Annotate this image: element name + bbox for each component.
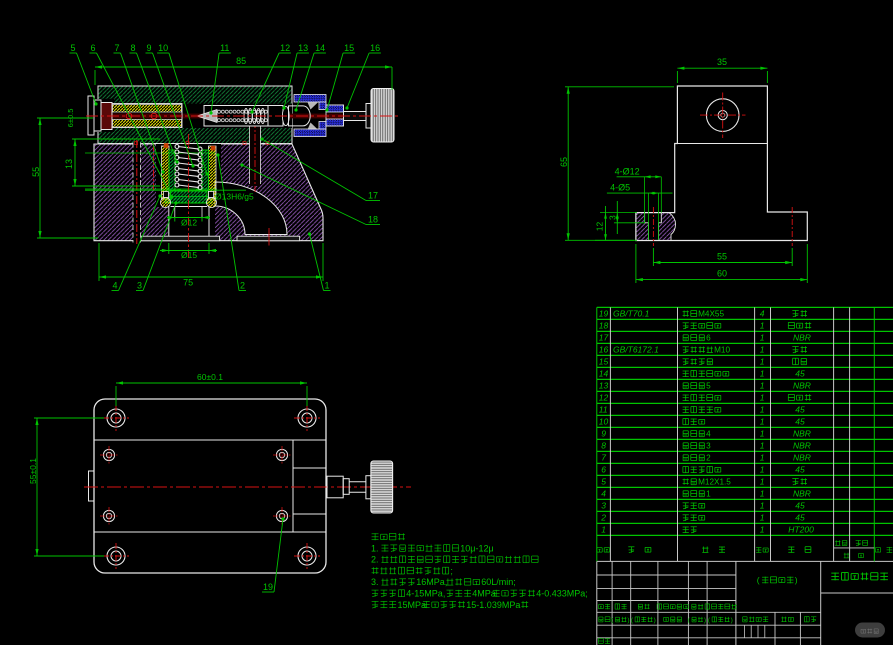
boss circle bbox=[706, 99, 739, 132]
stem bbox=[344, 112, 367, 121]
svg-text:1: 1 bbox=[760, 321, 765, 331]
svg-text:NBR: NBR bbox=[793, 333, 811, 343]
seal balls bbox=[126, 113, 132, 119]
svg-text:45: 45 bbox=[795, 369, 805, 379]
svg-text:13: 13 bbox=[64, 159, 74, 169]
svg-text:1: 1 bbox=[760, 393, 765, 403]
BOM header row bbox=[597, 548, 602, 552]
adjuster bracket blue hatch bbox=[294, 95, 344, 137]
svg-text:;: ; bbox=[450, 566, 453, 576]
spring seat section bbox=[268, 106, 283, 127]
svg-text:6±0.5: 6±0.5 bbox=[66, 109, 75, 128]
svg-text:1.: 1. bbox=[371, 543, 379, 553]
bracket part view bbox=[559, 57, 807, 283]
svg-text:2: 2 bbox=[240, 281, 245, 291]
revision row labels bbox=[598, 605, 603, 609]
svg-text:19: 19 bbox=[599, 309, 609, 319]
dim 65 bbox=[567, 87, 569, 241]
svg-text:Ø15: Ø15 bbox=[181, 250, 197, 260]
svg-text:M10: M10 bbox=[714, 346, 730, 355]
signature row bbox=[599, 617, 603, 622]
svg-text:11: 11 bbox=[599, 405, 608, 415]
svg-text:1: 1 bbox=[760, 369, 765, 379]
main spool green walls bbox=[169, 150, 175, 191]
svg-text:12: 12 bbox=[595, 221, 605, 231]
svg-text:45: 45 bbox=[795, 465, 805, 475]
svg-text:16MPa,: 16MPa, bbox=[416, 577, 447, 587]
svg-text:45: 45 bbox=[795, 513, 805, 523]
svg-text:4: 4 bbox=[113, 281, 118, 291]
svg-text:4-0.433MPa;: 4-0.433MPa; bbox=[536, 589, 588, 599]
svg-text:9: 9 bbox=[147, 43, 152, 53]
svg-text:4MPa: 4MPa bbox=[472, 589, 496, 599]
svg-text:1: 1 bbox=[760, 441, 765, 451]
bottom bore pocket bbox=[168, 206, 215, 241]
svg-text:M12X1.5: M12X1.5 bbox=[698, 478, 731, 487]
svg-text:10μ-12μ: 10μ-12μ bbox=[460, 543, 493, 553]
seal groove squares bbox=[164, 192, 169, 198]
svg-text:3: 3 bbox=[607, 215, 617, 220]
main spool bottom green block bbox=[165, 197, 212, 204]
small spring coils rows bbox=[218, 110, 280, 122]
svg-text:15-1.039MPa: 15-1.039MPa bbox=[466, 600, 520, 610]
BOM parts table bbox=[597, 307, 893, 561]
svg-text:1: 1 bbox=[760, 405, 765, 415]
svg-text:1: 1 bbox=[760, 513, 765, 523]
svg-text:1: 1 bbox=[760, 357, 765, 367]
svg-text:(: ( bbox=[757, 575, 760, 585]
svg-text:75: 75 bbox=[183, 278, 193, 288]
svg-text:65: 65 bbox=[559, 157, 569, 167]
svg-text:5: 5 bbox=[601, 477, 606, 487]
svg-text:5: 5 bbox=[706, 382, 711, 391]
svg-text:9: 9 bbox=[601, 429, 606, 439]
svg-text:GB/T70.1: GB/T70.1 bbox=[613, 309, 650, 319]
dim 6±0.5 rotated bbox=[66, 109, 75, 128]
svg-text:3: 3 bbox=[601, 501, 606, 511]
body cross reference lines bbox=[85, 152, 215, 154]
adjusting nut blue bbox=[326, 105, 344, 112]
svg-text:): ) bbox=[654, 617, 656, 624]
corner bolt holes bbox=[107, 409, 125, 427]
plan view of valve body bbox=[28, 372, 411, 592]
svg-text:NBR: NBR bbox=[793, 381, 811, 391]
dim 55 left bbox=[39, 118, 41, 238]
svg-text:55: 55 bbox=[31, 167, 41, 177]
arc flow pocket bbox=[215, 182, 287, 235]
svg-text:19: 19 bbox=[263, 582, 273, 592]
svg-text:1: 1 bbox=[760, 345, 765, 355]
svg-text:55: 55 bbox=[717, 252, 727, 262]
pilot poppet cone bbox=[197, 110, 217, 123]
dim 60±0.1 bbox=[116, 382, 307, 384]
spring cavity pocket bbox=[156, 144, 221, 207]
O-ring seals yellow circles bbox=[161, 198, 171, 208]
svg-text:6: 6 bbox=[601, 465, 606, 475]
svg-text:1: 1 bbox=[760, 465, 765, 475]
svg-text:GB/T6172.1: GB/T6172.1 bbox=[613, 345, 659, 355]
svg-text:1: 1 bbox=[760, 525, 765, 535]
svg-text:35: 35 bbox=[717, 57, 727, 67]
joint seal marks bbox=[164, 143, 169, 148]
seat cone wedges bbox=[308, 102, 319, 109]
dim 13 left bbox=[74, 139, 76, 186]
main valve sleeve: yellow hatch columns bbox=[162, 146, 170, 199]
body outline rounded bbox=[94, 399, 326, 573]
dim 75 bottom bbox=[99, 276, 323, 278]
svg-text:15: 15 bbox=[599, 357, 609, 367]
plan centerline bbox=[84, 486, 411, 488]
title block bbox=[597, 561, 893, 645]
svg-text:55±0.1: 55±0.1 bbox=[28, 458, 38, 484]
svg-text:1: 1 bbox=[760, 417, 765, 427]
dim 3 bbox=[616, 201, 618, 234]
section view: pilot-operated relief valve assembly bbox=[31, 43, 400, 291]
plug screw (maroon) bbox=[101, 103, 112, 130]
svg-text:45: 45 bbox=[795, 405, 805, 415]
svg-text:17: 17 bbox=[368, 191, 378, 201]
svg-text:1: 1 bbox=[760, 501, 765, 511]
stage mark cells bbox=[736, 611, 821, 613]
hole centerlines red bbox=[652, 207, 654, 246]
svg-text:2: 2 bbox=[600, 513, 606, 523]
cavity centerline bbox=[188, 134, 190, 258]
svg-text:1: 1 bbox=[760, 489, 765, 499]
svg-text:12: 12 bbox=[599, 393, 609, 403]
svg-text:4-15MPa,: 4-15MPa, bbox=[406, 589, 445, 599]
svg-text:60L/min;: 60L/min; bbox=[481, 577, 516, 587]
drain channel bbox=[250, 125, 261, 186]
dim Ø15 bbox=[168, 243, 170, 254]
svg-text:14: 14 bbox=[599, 369, 609, 379]
svg-text:7: 7 bbox=[601, 453, 606, 463]
svg-text:45: 45 bbox=[795, 417, 805, 427]
svg-text:1: 1 bbox=[760, 381, 765, 391]
end plate bbox=[88, 96, 94, 135]
plan knob shaft bbox=[327, 476, 343, 498]
inner holes bbox=[103, 449, 114, 460]
svg-text:4-Ø5: 4-Ø5 bbox=[610, 183, 630, 193]
svg-text:1: 1 bbox=[760, 453, 765, 463]
valve body (lower) purple hatch bbox=[94, 144, 323, 241]
bottom pads bbox=[141, 236, 220, 241]
svg-text:NBR: NBR bbox=[793, 429, 811, 439]
svg-text:4: 4 bbox=[601, 489, 606, 499]
svg-text:4: 4 bbox=[706, 430, 711, 439]
svg-text:4-Ø12: 4-Ø12 bbox=[615, 167, 640, 177]
technical requirements bbox=[371, 533, 588, 610]
svg-text:17: 17 bbox=[599, 333, 609, 343]
main spring coil bbox=[175, 145, 202, 190]
handwheel knurled bbox=[371, 89, 394, 143]
svg-text:1: 1 bbox=[325, 281, 330, 291]
svg-text:11: 11 bbox=[220, 43, 229, 53]
svg-text:12: 12 bbox=[280, 43, 290, 53]
main bore black + dark red core bbox=[92, 99, 114, 132]
svg-text:2: 2 bbox=[706, 454, 711, 463]
svg-text:1: 1 bbox=[760, 477, 765, 487]
svg-text:4: 4 bbox=[760, 309, 765, 319]
svg-text:6: 6 bbox=[91, 43, 96, 53]
svg-text:2.: 2. bbox=[371, 555, 379, 565]
svg-text:1: 1 bbox=[760, 429, 765, 439]
svg-text:45: 45 bbox=[795, 501, 805, 511]
svg-text:): ) bbox=[731, 617, 733, 624]
dim 35 bbox=[677, 67, 767, 69]
svg-text:M4X55: M4X55 bbox=[698, 310, 724, 319]
svg-text:10: 10 bbox=[158, 43, 168, 53]
svg-text:18: 18 bbox=[599, 321, 609, 331]
svg-text:7: 7 bbox=[115, 43, 120, 53]
dim 12 bbox=[605, 206, 607, 240]
left port centerline bbox=[153, 144, 155, 190]
plan handwheel bbox=[371, 461, 393, 513]
left port tab bbox=[89, 471, 95, 501]
svg-text:3.: 3. bbox=[371, 577, 379, 587]
auditor row bbox=[598, 639, 603, 644]
valve cover (upper body) hatch bbox=[98, 86, 292, 144]
bracket outline bbox=[636, 86, 807, 241]
svg-text:): ) bbox=[704, 617, 706, 624]
svg-text:3: 3 bbox=[706, 442, 711, 451]
svg-text:3: 3 bbox=[137, 281, 142, 291]
drawing title bbox=[821, 592, 893, 594]
left port channel bbox=[133, 143, 141, 243]
svg-text:18: 18 bbox=[368, 215, 378, 225]
svg-text:16: 16 bbox=[599, 345, 609, 355]
dim 55±0.1 bbox=[36, 418, 38, 556]
svg-text:60±0.1: 60±0.1 bbox=[197, 372, 223, 382]
bore step line bbox=[171, 206, 208, 208]
pilot spring coil (vertical ellipses) bbox=[244, 108, 265, 123]
fit note Ø13H6/g5 bbox=[85, 189, 246, 191]
watermark pill bbox=[855, 623, 885, 638]
svg-text:15MPa: 15MPa bbox=[398, 600, 427, 610]
svg-text:Ø12: Ø12 bbox=[181, 218, 197, 228]
svg-text:5: 5 bbox=[71, 43, 76, 53]
dim Ø12 bbox=[174, 218, 176, 222]
dim 55 bbox=[653, 262, 792, 264]
svg-text:1: 1 bbox=[601, 525, 606, 535]
svg-text:NBR: NBR bbox=[793, 489, 811, 499]
pilot seat sleeve with yellow thread bands bbox=[112, 104, 182, 128]
svg-text:): ) bbox=[795, 575, 798, 585]
svg-text:8: 8 bbox=[131, 43, 136, 53]
svg-text:1: 1 bbox=[760, 333, 765, 343]
svg-text:10: 10 bbox=[599, 417, 609, 427]
svg-text:1: 1 bbox=[706, 490, 711, 499]
svg-text:Ø13H6/g5: Ø13H6/g5 bbox=[215, 192, 254, 202]
svg-text:13: 13 bbox=[298, 43, 308, 53]
dim 60 bbox=[636, 279, 807, 281]
svg-text:60: 60 bbox=[717, 269, 727, 279]
dim 85 bbox=[95, 66, 392, 68]
svg-text:85: 85 bbox=[236, 56, 246, 66]
dome cap bbox=[289, 106, 311, 126]
main centerline bbox=[86, 115, 400, 117]
svg-text:6: 6 bbox=[706, 334, 711, 343]
svg-text:8: 8 bbox=[601, 441, 606, 451]
svg-text:15: 15 bbox=[344, 43, 354, 53]
pilot sleeve bbox=[204, 106, 268, 127]
washer bbox=[366, 104, 371, 129]
svg-text:NBR: NBR bbox=[793, 453, 811, 463]
base hatch blocks (section) bbox=[636, 213, 649, 241]
svg-text:HT200: HT200 bbox=[788, 525, 814, 535]
svg-text:NBR: NBR bbox=[793, 441, 811, 451]
svg-text:16: 16 bbox=[370, 43, 380, 53]
svg-text:): ) bbox=[627, 617, 629, 624]
svg-text:13: 13 bbox=[599, 381, 609, 391]
svg-text:14: 14 bbox=[315, 43, 325, 53]
